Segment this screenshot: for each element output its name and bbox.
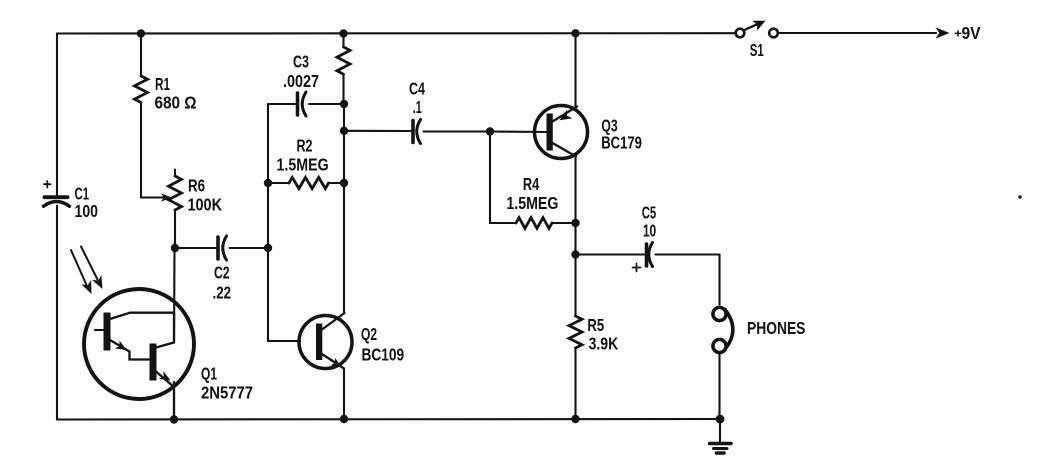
label R1: [155, 74, 197, 113]
Q3 emitter (arrow toward base, PNP): [553, 107, 578, 122]
potentiometer R6: [169, 170, 182, 245]
wire right column middle: [574, 156, 576, 317]
capacitor C2: [175, 236, 264, 260]
phones jack: [713, 307, 733, 419]
svg-text:.22: .22: [213, 282, 232, 302]
svg-text:R1: R1: [155, 74, 170, 94]
svg-text:C2: C2: [214, 263, 230, 283]
svg-text:.0027: .0027: [283, 71, 319, 91]
node right column top: [571, 29, 579, 37]
wire R1 to R6 wiper with arrow: [141, 193, 172, 201]
node R4 right: [571, 219, 579, 227]
node R2 right: [340, 179, 348, 187]
label S1: [750, 40, 764, 60]
T1 collector: [110, 313, 174, 319]
wire feedback column: [268, 104, 300, 341]
capacitor C4: [344, 120, 486, 144]
resistor R5: [569, 316, 582, 419]
wire right column upper: [574, 33, 576, 107]
svg-text:PHONES: PHONES: [747, 318, 805, 338]
svg-text:C4: C4: [409, 79, 425, 99]
light arrows: [71, 247, 103, 295]
transistor Q1 (photo-darlington 2N5777): [84, 248, 194, 420]
svg-text:R5: R5: [587, 315, 604, 335]
svg-text:9V: 9V: [962, 23, 981, 43]
capacitor C5: [576, 243, 720, 272]
label C2: [213, 263, 232, 303]
transistor Q2 (BC109): [299, 313, 352, 369]
svg-text:1.5MEG: 1.5MEG: [506, 193, 558, 213]
resistor R1: [135, 34, 148, 195]
svg-text:S1: S1: [750, 40, 764, 60]
svg-text:2N5777: 2N5777: [201, 383, 253, 403]
wire Q2 emitter to rail: [343, 369, 345, 420]
node Q1 emitter rail: [170, 415, 178, 423]
node C4/R4/Q3 base: [486, 127, 494, 135]
svg-text:R6: R6: [188, 176, 205, 196]
svg-text:680 Ω: 680 Ω: [155, 93, 197, 113]
node C2 right: [264, 244, 272, 252]
capacitor C3: [268, 92, 340, 116]
svg-text:BC179: BC179: [601, 132, 642, 152]
transistor Q3 (BC179): [535, 106, 588, 159]
wire left rail lower: [56, 206, 58, 420]
svg-text:10: 10: [643, 221, 656, 241]
wire C5 to phones: [718, 255, 720, 305]
node R1 top: [137, 29, 145, 37]
node R6/C2 junction: [171, 244, 179, 252]
wire Q1 collector from C2 node: [173, 248, 176, 343]
node R5 rail: [571, 415, 579, 423]
T2 base bar: [150, 344, 157, 381]
Q3 collector: [553, 143, 577, 157]
svg-text:Q2: Q2: [361, 324, 377, 344]
svg-text:R2: R2: [297, 135, 313, 155]
+9V arrow: [936, 27, 950, 38]
node C5 branch: [571, 250, 579, 258]
node C3 right: [340, 100, 348, 108]
svg-text:C5: C5: [642, 202, 657, 222]
label R6: [188, 176, 223, 215]
wire middle column: [343, 104, 345, 313]
T2 collector: [156, 313, 174, 348]
resistor R3 (unlabeled): [337, 34, 350, 105]
label Q3: [601, 115, 642, 152]
label Q2: [361, 324, 404, 364]
svg-text:1.5MEG: 1.5MEG: [277, 154, 329, 174]
T2 emitter: [156, 372, 174, 420]
node Q2 emitter rail: [340, 415, 348, 423]
label C3: [283, 51, 319, 91]
svg-text:100: 100: [75, 201, 99, 221]
label +9V: [954, 23, 981, 43]
node R2 left: [264, 179, 272, 187]
label R5: [587, 315, 618, 353]
switch S1: [736, 21, 778, 38]
resistor R4: [490, 132, 576, 229]
svg-text:C3: C3: [293, 51, 309, 71]
label Q1: [201, 364, 253, 403]
svg-text:BC109: BC109: [362, 344, 405, 364]
svg-text:R4: R4: [523, 174, 540, 194]
svg-text:Q1: Q1: [201, 364, 217, 384]
node middle column top: [339, 29, 347, 37]
svg-text:100K: 100K: [188, 195, 223, 215]
Q2 collector: [322, 313, 345, 330]
label C1: [75, 184, 99, 222]
T1 base stub: [95, 329, 104, 331]
Q2 emitter: [322, 354, 344, 369]
label C4: [409, 79, 425, 117]
wire left rail upper: [56, 34, 58, 198]
stray speck: [1018, 195, 1021, 198]
label PHONES: [747, 318, 805, 338]
label R2: [277, 135, 329, 174]
wire Q3 base: [490, 130, 548, 133]
wire bottom rail: [57, 418, 720, 421]
svg-text:3.9K: 3.9K: [589, 333, 619, 353]
node C4 branch: [340, 127, 348, 135]
T1 base bar: [104, 313, 111, 351]
T1 emitter to T2 base: [110, 340, 150, 360]
svg-text:.1: .1: [413, 97, 422, 117]
wire +9V feed: [779, 32, 937, 34]
label C5: [642, 202, 657, 240]
ground: [710, 419, 732, 453]
resistor R2: [268, 177, 344, 188]
capacitor C1: [44, 181, 70, 206]
label R4: [506, 174, 558, 213]
wire top rail: [57, 32, 735, 34]
node phones/ground rail: [716, 415, 725, 424]
